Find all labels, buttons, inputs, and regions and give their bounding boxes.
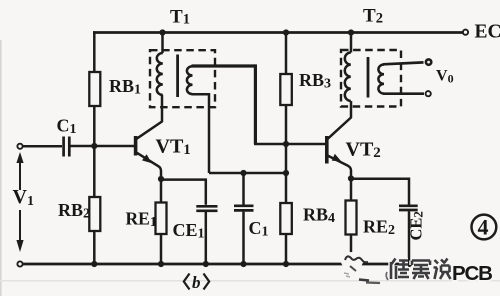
svg-text:PCB: PCB	[452, 262, 492, 285]
VT2 collector	[328, 101, 351, 139]
v1 arrow down	[19, 210, 21, 241]
watermark logo halo	[341, 252, 363, 270]
output terminal bottom	[426, 91, 431, 96]
wire: CE1 to ground	[205, 212, 208, 264]
circled figure number 4	[472, 215, 497, 240]
wire: RB2 to ground	[93, 231, 96, 264]
resistor RB4	[280, 203, 292, 234]
inductor T1 secondary	[187, 66, 193, 94]
wire: tap to C1 mid	[242, 173, 245, 205]
node: VT1 emitter	[158, 176, 164, 182]
capacitor C1 input plates	[62, 137, 65, 157]
wire: rail left end down to RB1	[93, 31, 96, 72]
wire: RB1 to base node	[93, 106, 96, 146]
node: C1 mid ground	[240, 261, 246, 267]
wire: emitter to RE1	[160, 179, 163, 203]
input terminal top	[17, 144, 22, 149]
wire: top supply rail EC	[93, 31, 463, 34]
node: rail to RB3	[283, 29, 289, 35]
output terminal top	[426, 59, 431, 64]
VT1 emitter arrow	[142, 154, 152, 163]
node: RB4 ground	[283, 261, 289, 267]
transistor VT1 base bar	[134, 136, 138, 156]
wire: RB3 to VT2 base line	[285, 105, 288, 144]
watermark pseudo hanzi 3	[434, 259, 451, 280]
node: RE1 ground	[158, 261, 164, 267]
VT2 emitter	[328, 156, 351, 179]
T2 core	[367, 57, 370, 98]
input terminal bottom	[17, 261, 22, 266]
node: RE2 ground	[348, 261, 354, 267]
inductor T2 primary	[345, 53, 351, 101]
capacitor CE1 plates	[196, 205, 217, 208]
wire: T1 secondary top to VT2 base (long link)	[192, 64, 256, 67]
resistor RB3	[280, 74, 292, 105]
wire: base junction down to RB4	[285, 144, 288, 203]
wire: emitter node to CE1	[161, 180, 206, 205]
capacitor C1 mid plates	[234, 204, 254, 207]
node: VT2 base junction	[283, 141, 289, 147]
VT1 collector	[137, 95, 163, 139]
node: RB2 ground	[91, 261, 97, 267]
wire: T1 secondary bottom	[192, 94, 210, 173]
resistor RE1	[156, 203, 167, 235]
wire: C1 mid to ground	[242, 212, 245, 264]
transformer T1 box	[150, 50, 215, 107]
VT2 emitter arrow	[332, 154, 342, 162]
wire: ground rail	[20, 263, 411, 266]
wire: VT2 emitter to CE2	[351, 179, 409, 205]
inductor T2 secondary	[378, 65, 384, 94]
resistor RE2	[346, 201, 357, 235]
node: C1 tap	[240, 170, 246, 176]
transformer T2 box	[341, 50, 401, 107]
node: rail to T2 primary	[348, 29, 354, 35]
T1 core	[176, 55, 179, 98]
v1 arrow up	[19, 162, 21, 190]
scan smudge bottom	[0, 280, 500, 282]
wire: CE2 to ground	[408, 211, 411, 264]
node: CE2 ground	[406, 261, 412, 267]
watermark logo squiggle	[344, 256, 388, 283]
transistor VT2 base bar	[325, 136, 329, 164]
inductor T1 primary	[157, 53, 163, 95]
wire: T2 secondary bottom to output	[383, 92, 424, 95]
wire: RE2 to ground	[350, 235, 353, 265]
watermark pseudo hanzi 2	[412, 261, 430, 280]
VT1 emitter	[137, 153, 162, 179]
wire: RE1 to ground	[160, 234, 163, 264]
node: VT2 emitter	[348, 175, 354, 181]
node: CE1 ground	[203, 261, 209, 267]
node: rail to T1 primary	[159, 29, 165, 35]
EC terminal circle	[463, 30, 468, 35]
watermark pseudo hanzi 1	[391, 259, 409, 280]
wire: rail to T1 primary	[161, 33, 164, 54]
node: RB4 tap	[283, 170, 289, 176]
svg-text:4: 4	[478, 215, 489, 240]
svg-text:EC: EC	[475, 22, 500, 43]
wire: rail to T2 primary	[350, 33, 353, 53]
label (b) brackets	[184, 274, 190, 290]
capacitor CE2 plates	[399, 204, 418, 207]
wire: T2 secondary top to output	[383, 62, 424, 64]
resistor RB1	[89, 72, 100, 106]
resistor RB2	[89, 197, 100, 231]
wire: emitter to RE2	[350, 179, 353, 201]
wire: RB3 from rail	[285, 33, 288, 75]
wire: input to C1	[23, 145, 63, 148]
svg-text:b: b	[192, 273, 201, 292]
wire: RB4 to ground	[285, 234, 288, 264]
scan edge left	[0, 40, 2, 296]
wire: secondary bottom to bias line	[209, 172, 286, 175]
wire: base node to RB2	[93, 146, 96, 197]
wire: C1 to VT1 base	[71, 145, 135, 148]
node: base bias junction	[91, 143, 97, 149]
